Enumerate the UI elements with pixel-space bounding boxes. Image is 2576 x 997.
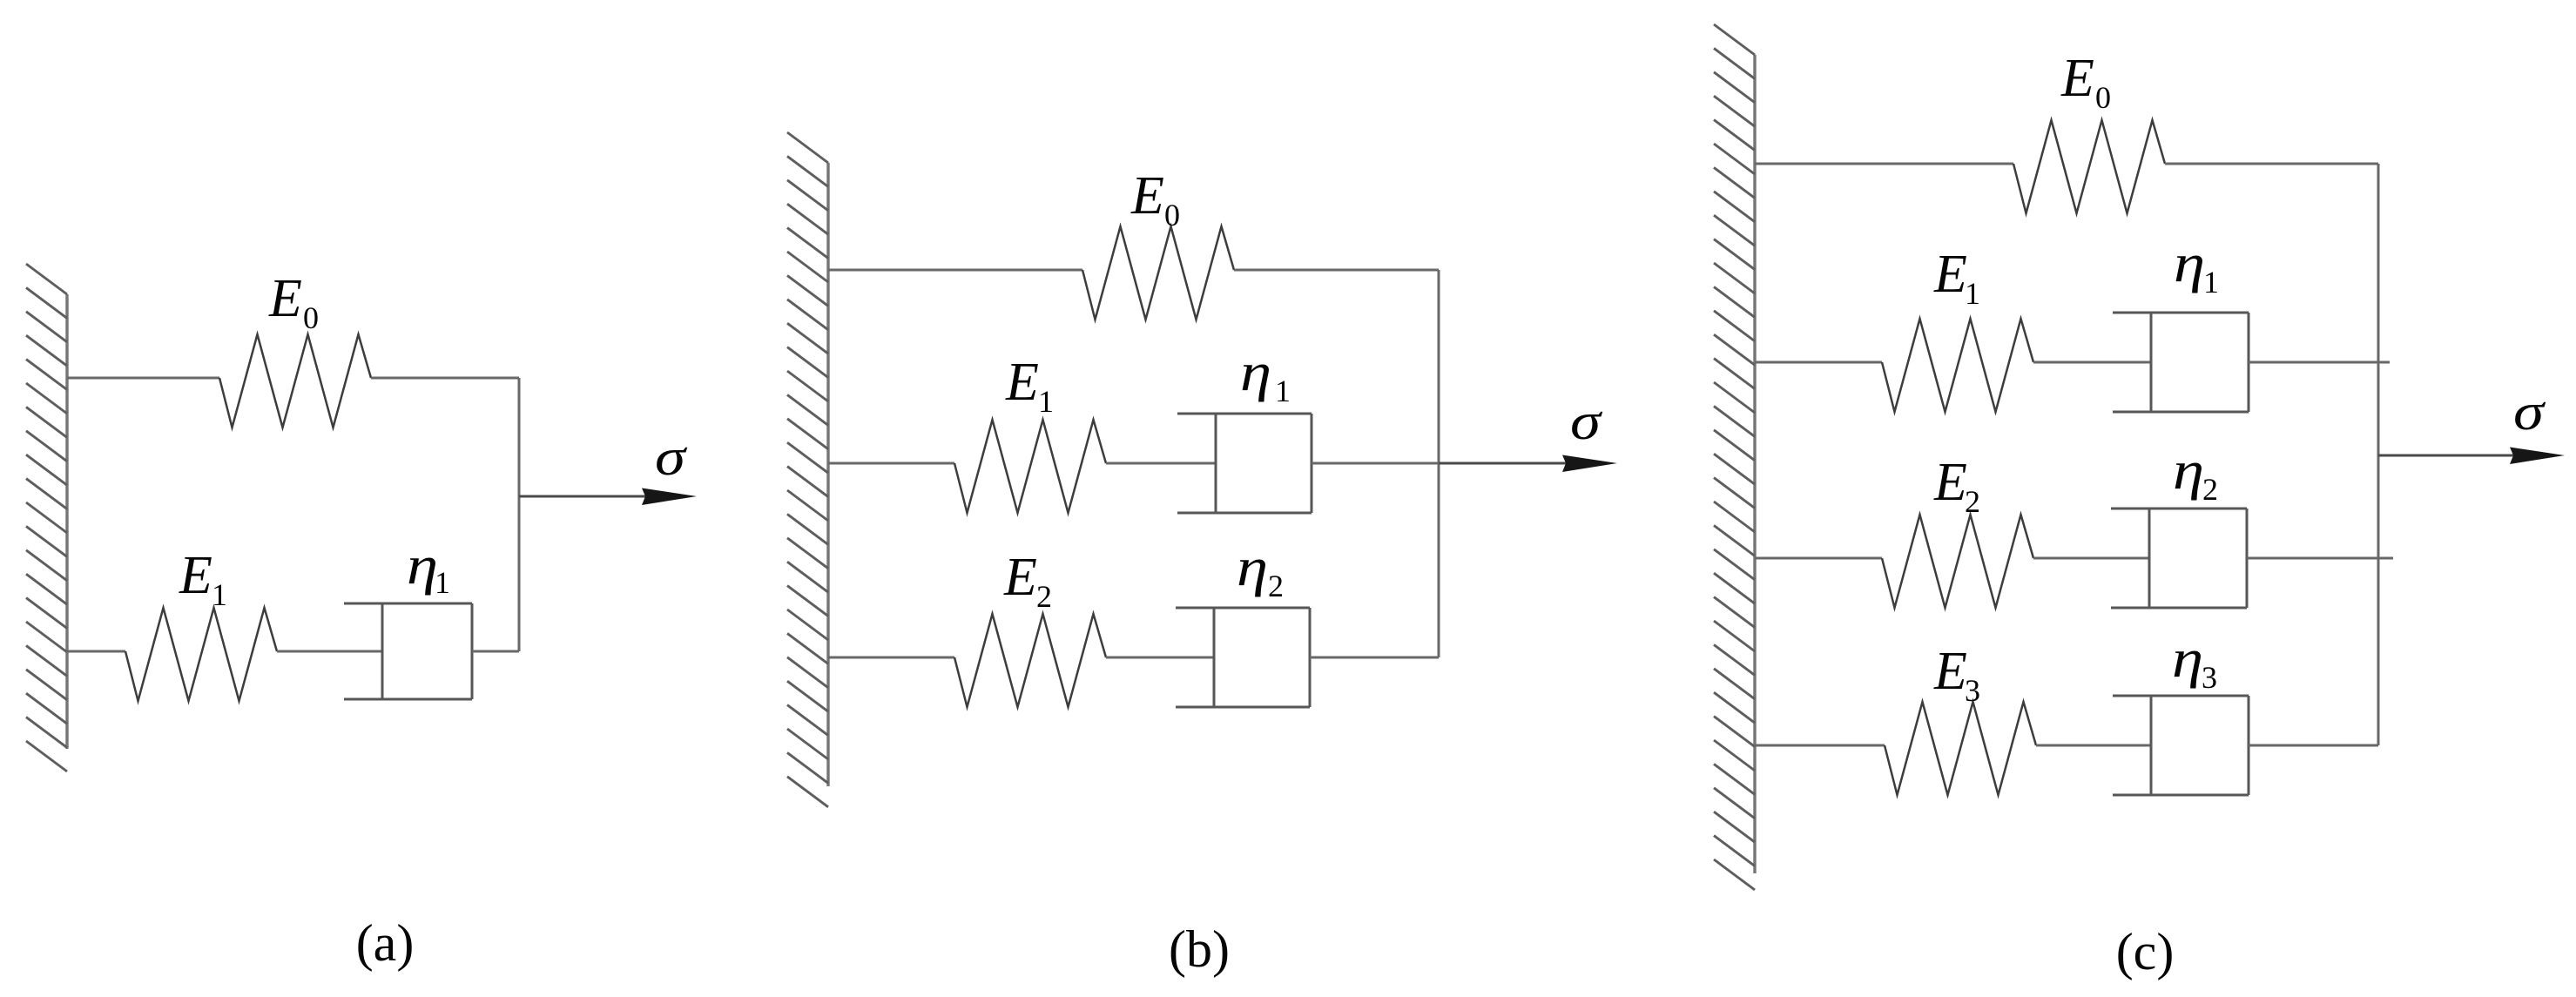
wire: spring E0 to right bus (c) (2165, 163, 2378, 165)
svg-text:η: η (2172, 630, 2203, 689)
stress arrow sigma (c) (2378, 448, 2565, 465)
svg-text:E: E (1005, 353, 1039, 412)
svg-text:E: E (179, 546, 212, 605)
svg-text:2: 2 (1965, 484, 1980, 519)
wire: spring E2 to dashpot piston (c) (2033, 557, 2149, 560)
spring E2 (b) (954, 614, 1106, 707)
spring E2 (c) (1882, 515, 2033, 608)
wire: dashpot eta2 to right bus (b) (1310, 657, 1439, 659)
stress arrow sigma (b) (1439, 455, 1617, 473)
wire: spring E2 to dashpot piston (b) (1106, 657, 1214, 659)
right bus node (a) (518, 378, 521, 651)
svg-text:(b): (b) (1169, 920, 1230, 978)
wire: dashpot eta1 to right bus (c) (2249, 361, 2390, 364)
label eta1 (a) (407, 536, 450, 600)
label E1 (b) (1005, 353, 1054, 419)
svg-text:E: E (2060, 49, 2094, 108)
wire: wall to spring E1 (a) (67, 650, 125, 653)
wire: spring E1 to dashpot piston rod (a) (277, 650, 382, 653)
dashpot eta2 (c) (2111, 509, 2247, 608)
dashpot eta1 (b) (1177, 414, 1312, 513)
wire: wall to spring E0 (a) (67, 377, 219, 380)
wire: dashpot eta3 to right bus (c) (2249, 744, 2378, 747)
svg-text:η: η (407, 536, 438, 596)
wire: wall to spring E3 (c) (1755, 744, 1885, 747)
wire: dashpot eta2 to right bus (c) (2247, 557, 2393, 560)
spring E1 (b) (954, 420, 1106, 513)
svg-text:2: 2 (2202, 472, 2218, 507)
label eta2 (b) (1237, 538, 1284, 603)
svg-text:1: 1 (1275, 374, 1291, 408)
spring E0 (a) (219, 334, 371, 428)
right bus node (c) (2377, 164, 2380, 745)
svg-text:3: 3 (1965, 673, 1980, 708)
wire: spring E0 to right bus (a) (371, 377, 519, 380)
svg-text:E: E (1933, 642, 1967, 701)
spring E1 (a) (125, 608, 277, 701)
svg-text:0: 0 (2095, 80, 2111, 115)
svg-text:(a): (a) (356, 914, 415, 972)
svg-text:0: 0 (1164, 198, 1180, 232)
svg-text:E: E (268, 269, 302, 328)
label E0 (b) (1130, 166, 1180, 232)
wire: wall to spring E0 (b) (828, 269, 1082, 272)
svg-text:3: 3 (2202, 660, 2217, 695)
wire: wall to spring E0 (c) (1755, 163, 2013, 165)
label eta3 (c) (2172, 630, 2217, 695)
wall fixed support (1714, 24, 1755, 890)
svg-text:η: η (2174, 234, 2205, 293)
label E3 (c) (1933, 642, 1980, 708)
label eta1 (b) (1240, 343, 1291, 408)
stress arrow sigma (a) (519, 488, 697, 506)
dashpot eta1 (a) (344, 603, 472, 699)
label eta2 (c) (2173, 441, 2218, 507)
svg-text:E: E (1933, 453, 1967, 512)
label E0 (c) (2060, 49, 2111, 115)
svg-text:(c): (c) (2116, 923, 2175, 980)
label E1 (a) (179, 546, 227, 612)
dashpot eta3 (c) (2113, 696, 2249, 795)
wire: dashpot to right bus (a) (472, 650, 519, 653)
dashpot eta1 (c) (2113, 313, 2249, 412)
wire: wall to spring E1 (b) (828, 462, 954, 465)
svg-text:η: η (1240, 343, 1271, 402)
svg-text:σ: σ (655, 428, 688, 486)
svg-text:E: E (1130, 166, 1164, 226)
wire: wall to spring E2 (c) (1755, 557, 1882, 560)
wire: dashpot eta1 to right bus (b) (1312, 462, 1439, 465)
right bus node (b) (1438, 270, 1440, 657)
spring E0 (b) (1082, 226, 1234, 320)
wire: spring E1 to dashpot piston (b) (1106, 462, 1216, 465)
wire: wall to spring E2 (b) (828, 657, 954, 659)
wire: spring E3 to dashpot piston (c) (2036, 744, 2151, 747)
label E1 (c) (1933, 245, 1980, 311)
spring E0 (c) (2013, 120, 2165, 213)
spring E3 (c) (1885, 702, 2036, 795)
svg-text:σ: σ (2513, 383, 2546, 441)
wall fixed support (26, 264, 67, 771)
svg-text:2: 2 (1036, 579, 1052, 614)
wire: spring E1 to dashpot piston (c) (2033, 361, 2151, 364)
label E2 (b) (1003, 548, 1052, 614)
dashpot eta2 (b) (1176, 608, 1310, 707)
svg-text:1: 1 (435, 565, 450, 600)
svg-text:η: η (2173, 441, 2204, 501)
wall fixed support (787, 132, 828, 807)
svg-text:1: 1 (1038, 384, 1054, 419)
svg-text:1: 1 (2203, 265, 2219, 300)
svg-text:0: 0 (303, 300, 319, 335)
label eta1 (c) (2174, 234, 2219, 300)
svg-text:E: E (1003, 548, 1037, 607)
spring E1 (c) (1882, 319, 2033, 412)
wire: spring E0 to right bus (b) (1234, 269, 1439, 272)
wire: wall to spring E1 (c) (1755, 361, 1882, 364)
label E2 (c) (1933, 453, 1980, 519)
svg-text:1: 1 (1965, 276, 1980, 311)
svg-text:1: 1 (212, 577, 227, 612)
label E0 (a) (268, 269, 319, 335)
svg-text:η: η (1237, 538, 1268, 597)
svg-text:E: E (1933, 245, 1967, 304)
svg-text:σ: σ (1570, 393, 1603, 450)
svg-text:2: 2 (1268, 569, 1284, 603)
